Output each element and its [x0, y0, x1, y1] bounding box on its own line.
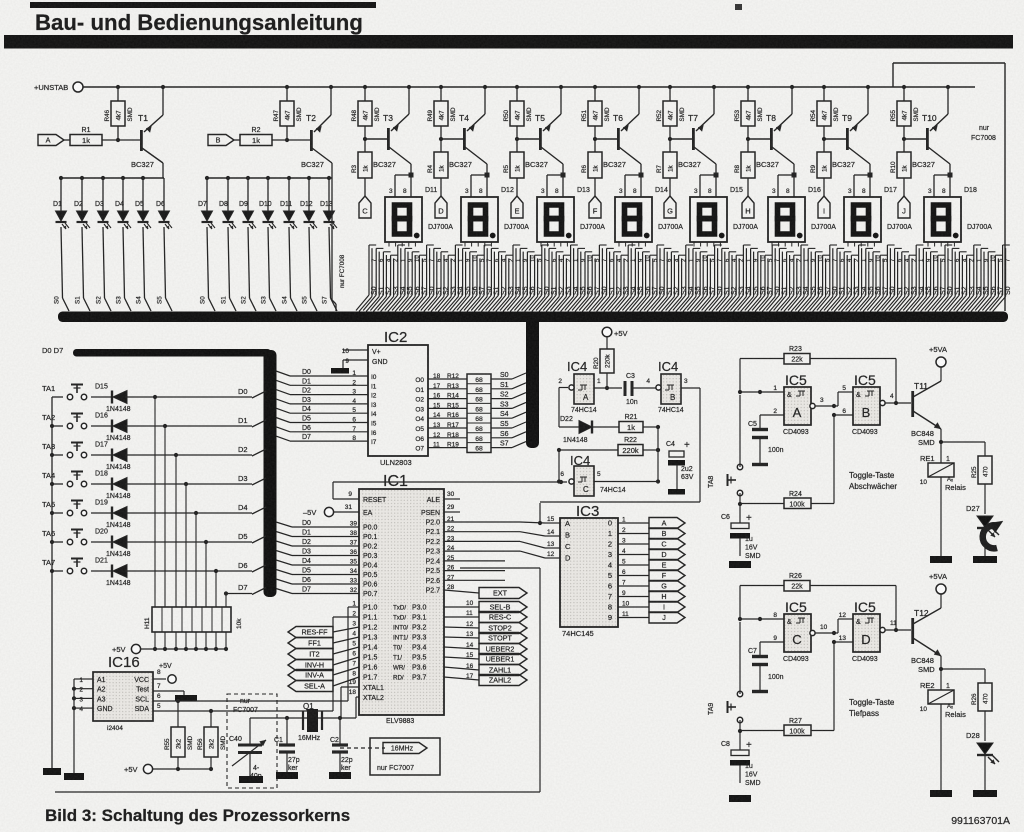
wire gate A output [810, 397, 838, 409]
wire IC1 P2.0 to IC3 [426, 516, 560, 527]
label Toggle-Taste [849, 471, 897, 491]
diode D22 1N4148 [559, 385, 619, 444]
wire flag INV-A to IC1 [333, 667, 359, 675]
wire IC1 P0.5 input D5 [276, 568, 378, 580]
node matrix junction D5 [204, 540, 208, 544]
resistor R47 4k7 SMD [273, 87, 303, 140]
bus D0-D7 horizontal [42, 346, 271, 357]
wire IC2 output O4 [415, 412, 467, 423]
flag INV-A [288, 670, 333, 681]
seven-segment display D15 DJ700A [690, 187, 758, 242]
LED D13 [320, 178, 337, 311]
label IC1 P1.3 row [352, 631, 426, 642]
capacitor C5 100n [748, 415, 784, 465]
node matrix junction D4 [194, 511, 198, 515]
wire IC2 input D0 [276, 369, 377, 381]
resistor R2 1k [234, 127, 311, 146]
wire oscillator to IC3 A [538, 503, 542, 525]
flag C digit [649, 539, 685, 550]
IC IC2 ULN2803 [368, 329, 428, 467]
wire keypad row D0 to bus [252, 391, 266, 398]
resistor R53 4k7 SMD [734, 87, 764, 141]
bus D0-D7 vertical bar [264, 350, 277, 597]
flag SEL-B [479, 602, 527, 613]
wire keypad row D1 to bus [252, 420, 266, 427]
page header top bar [30, 2, 376, 8]
resistor R46 4k7 SMD [104, 87, 134, 140]
wire segment S4 to bus [491, 411, 526, 418]
seven-segment display D18 DJ700A [924, 187, 992, 242]
node junction supply T6 [593, 85, 641, 89]
node -5V EA [303, 504, 373, 517]
label S0 column 2 [200, 296, 207, 304]
LED D6 [156, 178, 172, 311]
label IC1 P1.5 row [352, 651, 426, 662]
wire SCL line [153, 607, 359, 703]
resistor R24 100k [740, 415, 834, 509]
wire matrix column 3 [185, 484, 187, 607]
resistor R51 4k7 SMD [581, 87, 611, 141]
wire IC1 P0.1 input D1 [276, 530, 378, 542]
push button TA7 [42, 558, 87, 574]
wire gate C output [810, 624, 838, 636]
resistor R25 470 [971, 456, 992, 514]
wire gate D input 5 [838, 612, 853, 633]
wire IC1 RESET [333, 482, 387, 504]
wire keypad row D3 to bus [252, 478, 266, 485]
wire matrix column 4 [195, 513, 197, 607]
wire IC2 input D7 [276, 434, 377, 446]
wire IC16 Test to SMD pad [153, 683, 197, 701]
wire IC2 output O2 [415, 393, 467, 404]
IC IC5 gate C CD4093 [783, 599, 811, 663]
label S2 column [96, 296, 103, 304]
wire IC1 P3.7 to flag [444, 673, 479, 680]
label Toggle-Taste [849, 698, 895, 718]
wire IC2 input D6 [276, 425, 377, 437]
relay RE2 [920, 669, 966, 790]
node junction supply T2 [285, 85, 333, 89]
wire flag FF1 to IC1 [333, 637, 359, 643]
capacitor C8 1u 16V SMD [721, 740, 761, 787]
ground RE1 [930, 556, 952, 563]
title underline bar [4, 35, 1013, 49]
label S5 column 2 [302, 296, 309, 304]
transistor T10 BC327 [904, 87, 950, 169]
wire IC3 output 7 [618, 590, 649, 597]
ground C2 [329, 772, 351, 779]
wire display pins 3/8 T9 [848, 164, 873, 197]
wire matrix column 7 [224, 591, 228, 607]
LED D3 [95, 178, 111, 311]
wire IC1 P2.7 to EXT flag [426, 584, 479, 595]
wire IC2 output O0 [415, 373, 467, 384]
wire emitter to R26 [941, 669, 985, 683]
IC IC4 gate B 74HC14 [646, 359, 688, 414]
push button TA6 [42, 529, 87, 545]
LED D27 [966, 504, 999, 556]
wire emitter to R25 [941, 442, 985, 456]
label IC1 P1.7 row [352, 671, 426, 682]
flag FF1 [288, 638, 333, 649]
wire IC2 output O5 [415, 422, 467, 433]
label IC1 ALE PSEN [421, 491, 460, 517]
wire matrix column 6 [215, 571, 217, 607]
wire gate D input 6 [832, 635, 853, 644]
push button TA8 [708, 392, 743, 496]
transistor T12 BC848 SMD [911, 594, 943, 674]
label S1 column 2 [221, 296, 228, 304]
wire R23 left [738, 359, 784, 395]
flag RES-C [479, 612, 527, 623]
wire IC1 P3.4 to flag [444, 642, 479, 649]
resistor R48 4k7 SMD [351, 87, 381, 141]
LED D1 [53, 178, 69, 311]
crystal Q1 16MHz [298, 702, 322, 742]
label S0 column [54, 296, 61, 304]
wire IC3 output 9 [618, 611, 649, 618]
resistor R27 100k [740, 642, 834, 736]
wire display pins 3/8 T5 [541, 164, 566, 197]
flag I digit [649, 602, 685, 613]
wire button rail TA8 [738, 395, 742, 523]
IC IC4 gate C 74HC14 [560, 453, 625, 496]
wire IC3 output 5 [618, 569, 649, 576]
wire C4 top connection [658, 449, 677, 451]
label S5 column [157, 296, 164, 304]
capacitor C40 4-40p trimmer [229, 718, 266, 780]
wire gate C input 1 [740, 612, 784, 621]
wire IC2 output O1 [415, 383, 467, 394]
node junction supply T7 [668, 85, 716, 89]
wire display pins 3/8 T10 [928, 164, 953, 197]
label D1 keypad row [238, 416, 248, 425]
wire IC3 output 4 [618, 559, 649, 566]
IC IC16 24C04 [93, 654, 153, 732]
wire IC1 P3.2 to flag [444, 621, 479, 628]
wire IC1 P3.6 to flag [444, 663, 479, 670]
label IC1 P1.1 row [352, 611, 426, 622]
transistor T9 BC327 [824, 87, 870, 169]
resistor R55 2k2 SMD [164, 701, 194, 771]
wire gate C input 2 [760, 619, 784, 642]
flag I [818, 196, 830, 218]
seven-segment display D14 DJ700A [615, 187, 683, 242]
transistor T3 BC327 [365, 87, 411, 169]
node +5VA T11 [929, 345, 947, 367]
flag ZAHL1 [479, 665, 527, 676]
node matrix junction D0 [153, 395, 157, 399]
wire IC1 P0.6 input D6 [276, 577, 378, 589]
wire H11 pins to +5V rail [141, 632, 228, 651]
wire flag RES-FF to IC1 [333, 627, 359, 632]
flag A digit [649, 518, 685, 529]
wire IC3 output 1 [618, 527, 649, 534]
IC IC5 gate A CD4093 [783, 372, 811, 436]
wire IC1 P2.6 stub [426, 574, 505, 585]
seven-segment display D17 DJ700A [844, 187, 912, 242]
resistor R49 4k7 SMD [427, 87, 457, 141]
transistor T6 BC327 [595, 87, 641, 169]
wire IC1 P2.3 to IC3 [426, 545, 560, 558]
wire IC1 P0.4 input D4 [276, 558, 378, 570]
flag SEL-A [288, 681, 333, 692]
wire keypad row D5 to bus [252, 536, 266, 543]
wire IC3 output 3 [618, 548, 649, 555]
node junction supply T1 [116, 85, 165, 89]
page title text [35, 10, 363, 35]
flag INV-H [288, 660, 333, 671]
wire IC1 P3.3 to flag [444, 631, 479, 638]
wire keypad row D6 to bus [252, 565, 266, 572]
node matrix junction D6 [214, 569, 218, 573]
flag STOPT [479, 633, 527, 644]
page header mark [735, 4, 742, 10]
wire IC3 output 2 [618, 538, 649, 545]
wire segment S1 to bus [491, 382, 526, 389]
wire IC2 input D3 [276, 397, 377, 409]
connector H11 [144, 607, 243, 632]
wire R26 left [738, 586, 784, 622]
input flag A [38, 135, 64, 146]
wire display pins 3/8 T3 [389, 164, 414, 197]
ground C6 [729, 561, 751, 568]
resistor R26 470 [971, 683, 992, 741]
resistor R4 1k [427, 139, 448, 196]
wire IC2 GND pin 9 [343, 358, 388, 368]
ground D28 [973, 790, 997, 797]
node junction supply T5 [515, 85, 563, 89]
doc number 991163701A [951, 815, 1010, 827]
wire gate C output [594, 481, 658, 483]
LED D5 [135, 178, 151, 311]
wire segment S2 to bus [491, 392, 526, 399]
wire segment S3 to bus [491, 401, 526, 408]
resistor R54 4k7 SMD [810, 87, 840, 141]
LED D4 [115, 178, 131, 311]
wire segment S6 to bus [491, 431, 526, 438]
seven-segment display D11 DJ700A [385, 187, 453, 242]
label D3 keypad row [238, 474, 248, 483]
flag C [359, 196, 371, 218]
flag G digit [649, 581, 685, 592]
label D7 keypad row [226, 583, 266, 595]
label IC1 P1.0 row [352, 601, 426, 612]
bus bar segment lines [58, 312, 1008, 323]
seven-segment display D12 DJ700A [461, 187, 529, 242]
resistor array R12-R19 68R [467, 374, 491, 453]
wire IC3 output 0 [618, 517, 649, 524]
resistor R7 1k [656, 139, 677, 196]
resistor R50 4k7 SMD [503, 87, 533, 141]
resistor R6 1k [581, 139, 602, 196]
diode D17 1N4148 [91, 442, 252, 472]
node junction supply T10 [902, 85, 950, 89]
wire R23 right [810, 359, 898, 406]
flag UEBER1 [479, 654, 527, 665]
diode D15 1N4148 [91, 384, 252, 414]
capacitor C7 100n [748, 642, 784, 692]
wire IC2 output O7 [415, 442, 467, 453]
node junction supply T8 [746, 85, 794, 89]
transistor T1 BC327 [131, 87, 163, 178]
label S4 column 2 [282, 296, 289, 304]
push button TA5 [42, 500, 87, 516]
wire keypad row D2 to bus [252, 449, 266, 456]
resistor R52 4k7 SMD [656, 87, 686, 141]
wire IC2 input D2 [276, 388, 377, 400]
LED D2 [74, 178, 90, 311]
relay RE1 [920, 442, 966, 556]
wire matrix column 5 [205, 542, 207, 607]
capacitor C6 1u 16V SMD [721, 513, 761, 560]
wire gate B input 6 [832, 408, 853, 417]
transistor T11 BC848 SMD [911, 367, 943, 447]
wire IC1 P0.7 input D7 [276, 587, 378, 599]
LED D12 [300, 178, 317, 311]
wire IC1 P0.0 input D0 [276, 520, 378, 532]
LED D10 [259, 178, 276, 311]
flag F digit [649, 570, 685, 581]
resistor R23 22k [784, 346, 810, 364]
diode D20 1N4148 [91, 529, 252, 559]
resistor R5 1k [503, 139, 524, 196]
node +5V IC16 VCC [153, 663, 176, 683]
wire flag SEL-A to IC1 [333, 677, 359, 686]
wire IC2 output O3 [415, 402, 467, 413]
resistor R10 1k [890, 139, 911, 196]
label S2 column 2 [241, 296, 248, 304]
node +5V pullup rail [124, 764, 211, 774]
capacitor C4 2u2 63V [658, 440, 694, 495]
flag ZAHL2 [479, 675, 527, 686]
diode D21 1N4148 [91, 558, 252, 588]
node junction supply T3 [363, 85, 411, 89]
wire gate B output [880, 393, 911, 406]
label IC1 P1.6 row [352, 661, 426, 672]
resistor R1 1k [64, 127, 140, 146]
capacitor C2 22p [330, 718, 353, 772]
flag E digit [649, 560, 685, 571]
flag IT2 [288, 649, 333, 660]
seven-segment display D13 DJ700A [537, 187, 605, 242]
wire IC16 address pins [72, 677, 93, 773]
ground C40 [239, 776, 263, 783]
wire IC1 P3.5 to flag [444, 652, 479, 659]
label S3 column [116, 296, 123, 304]
box nur FC7007 dashed [227, 694, 277, 788]
wire display pins 3/8 T6 [619, 164, 644, 197]
label IC1 P1.2 row [352, 621, 426, 632]
wire IC2 input D1 [276, 378, 377, 390]
LED D7 [198, 178, 215, 311]
wire SDA line [153, 617, 359, 713]
wire XTAL2 [356, 697, 359, 718]
label D4 keypad row [238, 503, 248, 512]
capacitor C1 27p [274, 718, 300, 772]
node matrix junction D2 [174, 453, 178, 457]
label IC1 P1.4 row [352, 641, 426, 652]
ground keypad rail [43, 762, 61, 775]
wire IC3 output 6 [618, 580, 649, 587]
node +5VA T12 [929, 572, 947, 594]
label D6 keypad row [238, 561, 248, 570]
flag EXT [479, 588, 527, 599]
resistor R20 220k [593, 337, 614, 390]
push button TA3 [42, 442, 87, 458]
label S3 column 2 [261, 296, 268, 304]
flag D digit [649, 549, 685, 560]
IC IC5 gate B CD4093 [852, 372, 880, 436]
wire IC1 XTAL pins [349, 679, 384, 702]
bus segment vertical bar [526, 313, 539, 448]
LED D9 [239, 178, 256, 311]
node +5V keypad [112, 644, 141, 654]
push button TA9 [708, 619, 743, 723]
wire keypad row D4 to bus [252, 507, 266, 514]
flag F [589, 196, 601, 218]
ground IC16 [64, 773, 84, 780]
LED D11 [280, 178, 297, 311]
SMD ground pad IC2 [331, 368, 349, 374]
label D2 keypad row [238, 445, 248, 454]
wire matrix column 2 [175, 455, 177, 607]
wire display pins 3/8 T7 [694, 164, 719, 197]
wire display bottom pin stubs [389, 242, 954, 247]
wire gate B output loop [540, 388, 700, 503]
ground C1 [276, 772, 298, 779]
transistor T7 BC327 [670, 87, 716, 169]
flag J [898, 196, 910, 218]
input flag B [208, 135, 234, 146]
resistor R26 22k [784, 573, 810, 591]
wire XTAL1 [341, 687, 359, 718]
wire display pins 3/8 T4 [465, 164, 490, 197]
wire gate A input 2 [760, 392, 784, 415]
flag D [435, 196, 447, 218]
wire IC2 output O6 [415, 432, 467, 443]
push button TA4 [42, 471, 87, 487]
wire keypad left rail [50, 397, 54, 762]
wire segment S5 to bus [491, 421, 526, 428]
wire flag IT2 to IC1 [333, 647, 359, 654]
wire LED rail 1 [59, 176, 164, 180]
wire segment comb under displays [356, 245, 1012, 312]
wire gate D output [880, 620, 911, 633]
IC IC5 gate D CD4093 [852, 599, 880, 663]
flag H [742, 196, 754, 218]
wire R26 right [810, 586, 898, 633]
wire matrix column 1 [164, 426, 166, 607]
wire segment S7 to bus [491, 441, 526, 448]
wire matrix column 0 [154, 397, 156, 607]
flag H digit [649, 591, 685, 602]
push button TA1 [42, 384, 87, 400]
label S1 column [75, 296, 82, 304]
label nur FC7008 vertical [339, 254, 346, 288]
resistor R3 1k [351, 139, 372, 196]
wire IC1 right loop [55, 568, 540, 792]
LED D8 [219, 178, 236, 311]
wire display pins 3/8 T8 [772, 164, 797, 197]
caption Bild 3 [45, 806, 350, 825]
wire IC1 P3.1 to flag [444, 610, 479, 617]
label nur FC7008 [971, 125, 996, 142]
capacitor C3 10n [625, 373, 658, 406]
node junction supply T9 [822, 85, 870, 89]
node +UNSTAB terminal [34, 82, 83, 92]
box nur FC7008 enclosure [893, 63, 1005, 311]
